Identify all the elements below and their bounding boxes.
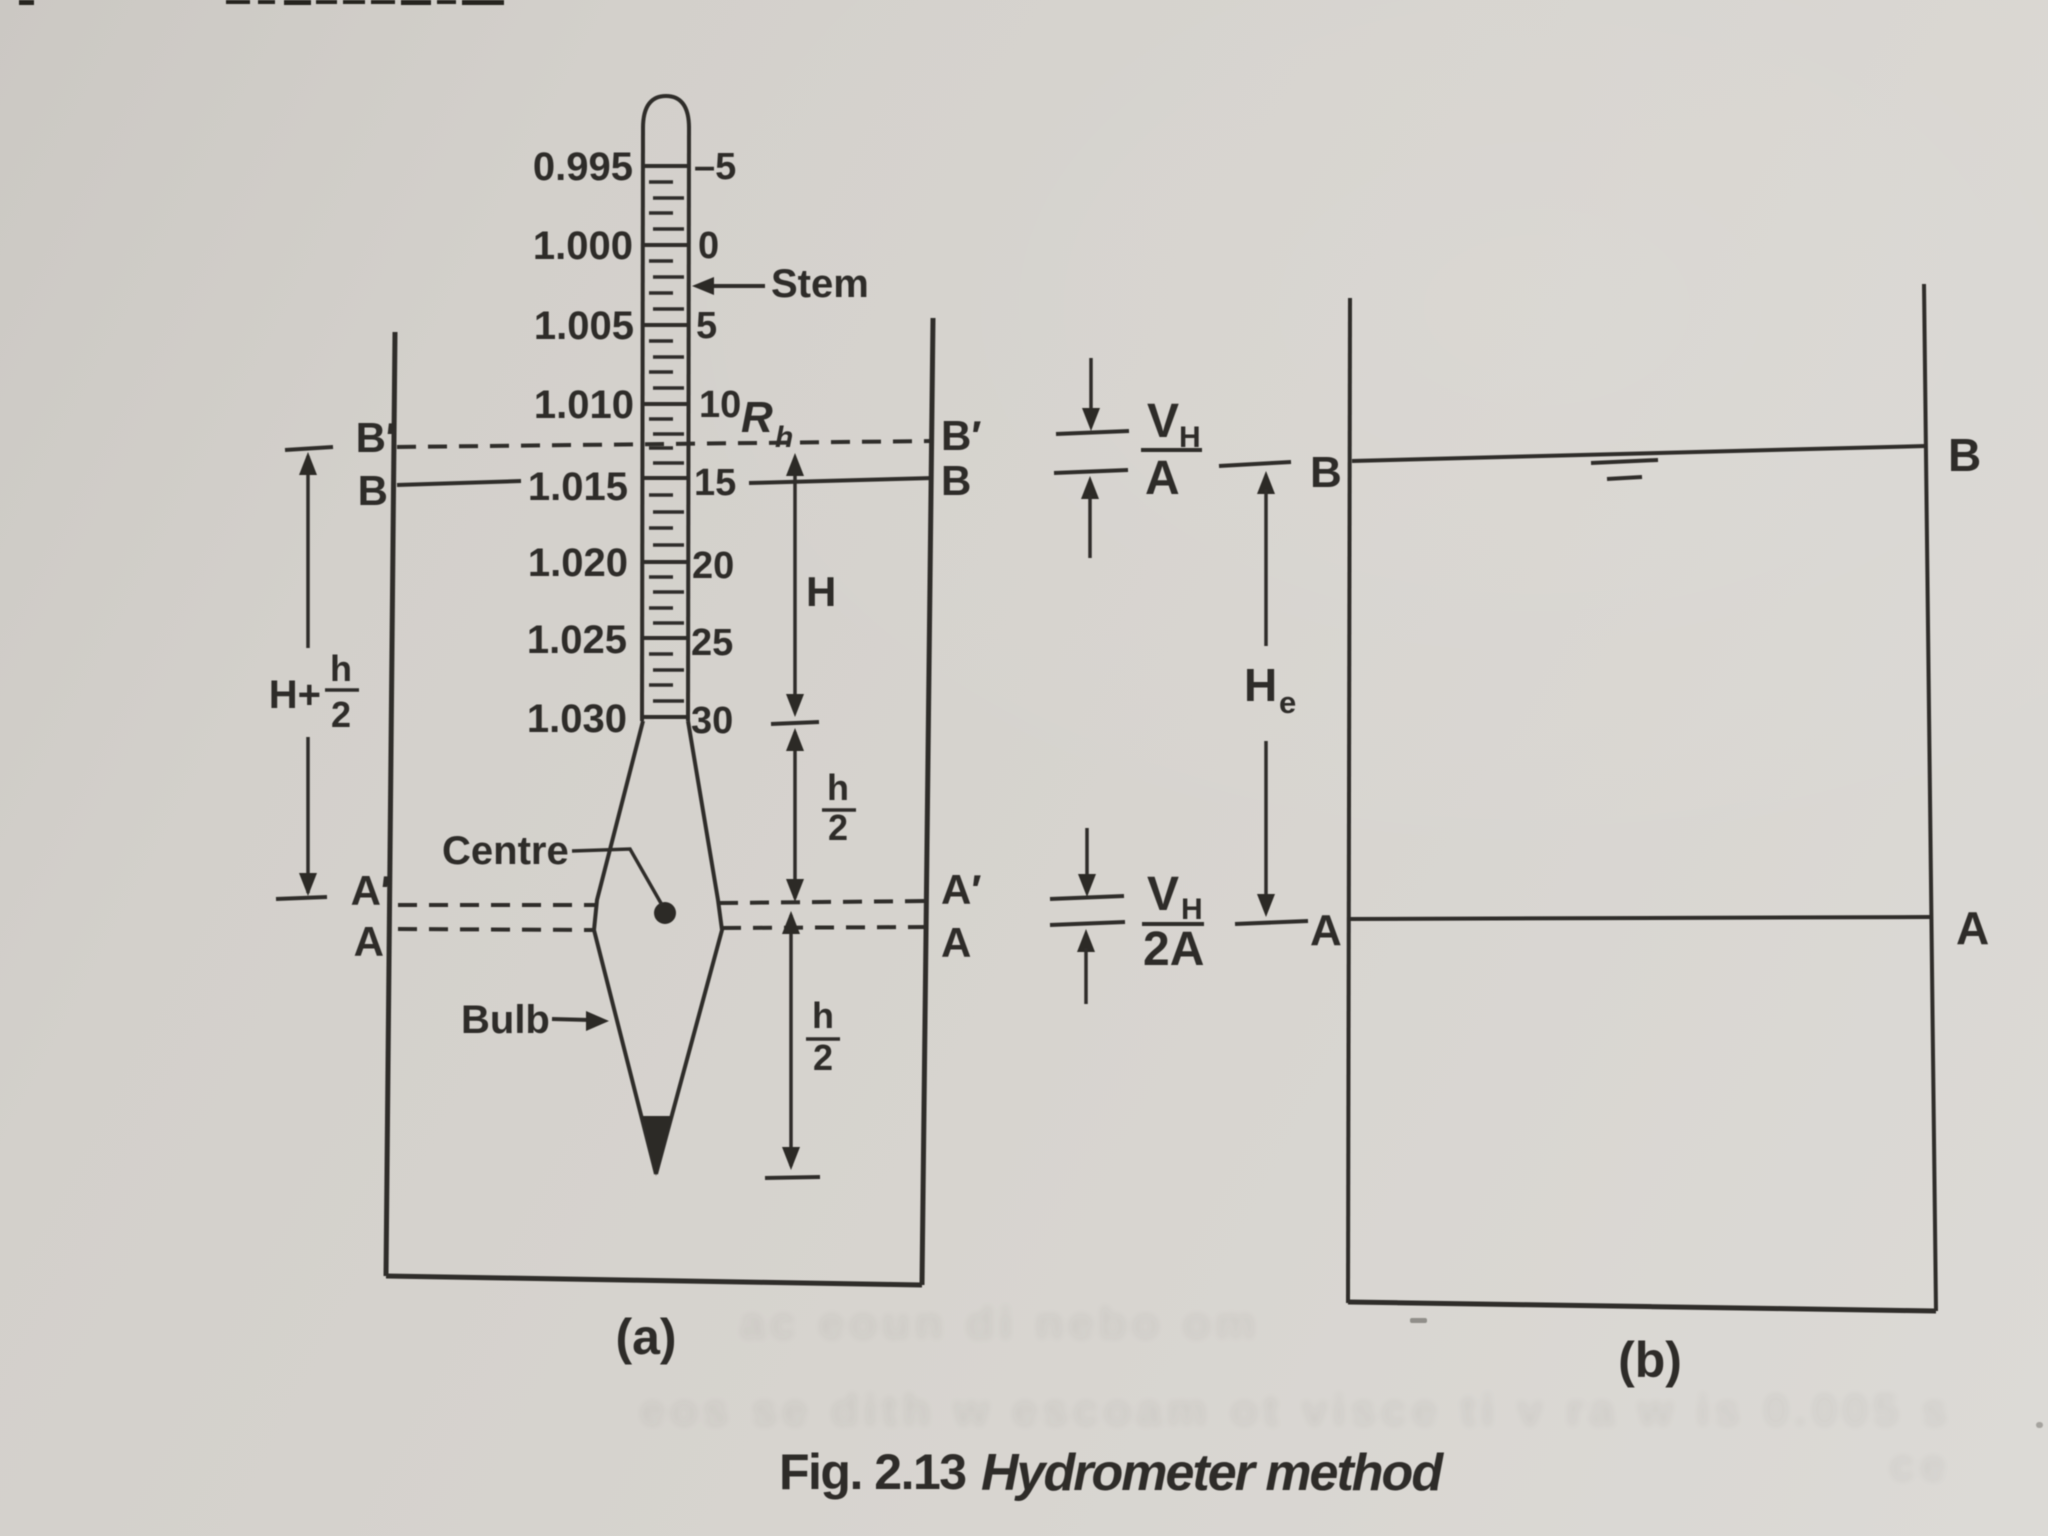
svg-text:2A: 2A [1143, 923, 1204, 976]
label Rh (hydrometer reading) [741, 393, 793, 454]
dimension h/2 lower [765, 911, 820, 1178]
scale labels left column [527, 145, 634, 741]
jar (a) left wall [386, 332, 395, 1276]
svg-text:0: 0 [698, 225, 719, 267]
middle annotation VH/2A [1050, 828, 1125, 1004]
dimension H (stem immersed depth) [771, 453, 819, 724]
fraction VH/2A [1142, 868, 1204, 976]
svg-text:e: e [1279, 685, 1296, 720]
level lines B' B A' A in jar (a) [397, 441, 933, 930]
hydrometer bulb solid tip [642, 1116, 672, 1176]
svg-text:1.015: 1.015 [528, 465, 628, 509]
svg-text:H: H [806, 568, 836, 615]
stem minor graduation ticks [649, 182, 684, 701]
svg-text:A: A [354, 918, 384, 965]
fraction VH/A [1141, 395, 1202, 505]
svg-text:V: V [1147, 395, 1179, 448]
svg-text:ce: ce [1890, 1441, 1951, 1490]
water surface line B in jar (b) [1352, 446, 1925, 461]
svg-text:20: 20 [692, 545, 734, 587]
svg-text:2: 2 [828, 807, 848, 848]
svg-text:1.000: 1.000 [533, 224, 633, 268]
tick and label A (middle) [1235, 906, 1342, 955]
hydrometer bulb left outline [594, 721, 656, 1174]
svg-text:ac eoun di nebo om: ac eoun di nebo om [740, 1299, 1261, 1348]
caption [779, 1444, 1444, 1502]
faint bleed-through from reverse page [640, 1299, 1953, 1490]
scale numbers right column [691, 146, 741, 742]
svg-text:1.025: 1.025 [527, 618, 627, 662]
hydrometer stem tube left wall [642, 126, 643, 721]
level line A in jar (b) [1350, 917, 1930, 919]
svg-text:B′: B′ [356, 414, 396, 461]
hydrometer centre of bulb dot [654, 902, 676, 924]
svg-text:Bulb: Bulb [461, 998, 550, 1042]
svg-text:15: 15 [694, 462, 736, 504]
hydrometer stem tube right wall [688, 126, 689, 721]
svg-text:0.995: 0.995 [533, 145, 633, 189]
jar (b) bottom [1348, 1302, 1936, 1311]
svg-text:A: A [1310, 906, 1342, 955]
svg-text:H+: H+ [269, 673, 321, 717]
svg-text:5: 5 [696, 305, 717, 347]
svg-text:V: V [1147, 868, 1179, 921]
svg-text:2: 2 [813, 1037, 833, 1078]
label h/2 lower [806, 995, 840, 1078]
top page-edge cropped title remnants [19, 0, 504, 5]
svg-text:–5: –5 [694, 146, 736, 188]
line B right segment [749, 478, 933, 483]
svg-text:B: B [358, 467, 388, 514]
stray pencil mark under jar (b) [1410, 1318, 1427, 1323]
line B' dashed [397, 441, 932, 447]
svg-text:1.030: 1.030 [527, 697, 627, 741]
svg-text:A′: A′ [351, 867, 391, 914]
middle annotation VH/A [1054, 358, 1129, 558]
line B left segment [397, 481, 521, 485]
tick and label B (middle) [1219, 448, 1342, 497]
label H+h/2 [269, 648, 359, 735]
stem major graduation lines [643, 166, 689, 717]
svg-text:A: A [1145, 452, 1180, 505]
svg-text:(b): (b) [1618, 1332, 1682, 1388]
line A dashed right segment [722, 927, 930, 928]
line A' dashed left segment [398, 903, 596, 907]
svg-text:(a): (a) [615, 1309, 676, 1365]
svg-text:1.005: 1.005 [534, 304, 634, 348]
hydrometer bulb right outline [656, 721, 722, 1174]
jar (b) right wall [1924, 284, 1936, 1311]
jar (b) [1348, 284, 1936, 1311]
svg-text:B: B [1310, 448, 1342, 497]
svg-text:B: B [941, 457, 971, 504]
svg-text:h: h [775, 421, 793, 454]
dimension H + h/2 at far left [276, 447, 333, 899]
svg-text:1.010: 1.010 [534, 383, 634, 427]
svg-text:B′: B′ [941, 412, 981, 459]
Bulb label and arrow [461, 998, 609, 1042]
svg-text:A: A [1956, 902, 1989, 954]
svg-text:Centre: Centre [442, 829, 569, 873]
svg-text:30: 30 [691, 700, 733, 742]
svg-text:A: A [941, 919, 971, 966]
dimension h/2 upper [786, 728, 804, 902]
hydrometer stem rounded cap [643, 96, 689, 128]
dimension He [1257, 471, 1275, 917]
svg-text:Hydrometer method: Hydrometer method [981, 1444, 1444, 1502]
svg-text:h: h [330, 648, 352, 689]
jar (a) bottom [386, 1276, 922, 1285]
svg-text:25: 25 [691, 622, 733, 664]
svg-text:H: H [1244, 659, 1277, 711]
jar (a) right wall [922, 318, 933, 1285]
svg-text:h: h [827, 767, 849, 808]
svg-text:B: B [1948, 429, 1981, 481]
svg-text:eos se dith w escoam ot visce: eos se dith w escoam ot visce ti v ra w … [640, 1386, 1953, 1435]
label He [1244, 659, 1296, 720]
water surface symbol [1591, 460, 1658, 463]
jar (b) left wall [1348, 298, 1350, 1303]
line A dashed left segment [398, 929, 594, 930]
svg-text:h: h [812, 995, 834, 1036]
svg-text:H: H [1181, 893, 1203, 926]
line A' dashed right segment [719, 901, 929, 903]
tiny spot right edge [2036, 1422, 2043, 1428]
svg-text:10: 10 [699, 384, 741, 426]
svg-text:Stem: Stem [771, 262, 869, 306]
label h/2 upper [822, 767, 856, 848]
hydrometer [594, 96, 722, 1176]
svg-text:R: R [741, 393, 773, 442]
Stem label and arrow [692, 262, 869, 306]
svg-text:Fig. 2.13: Fig. 2.13 [779, 1444, 966, 1500]
Centre label and leader [442, 829, 662, 905]
svg-text:1.020: 1.020 [528, 541, 628, 585]
svg-text:A′: A′ [941, 866, 981, 913]
svg-text:2: 2 [331, 694, 351, 735]
